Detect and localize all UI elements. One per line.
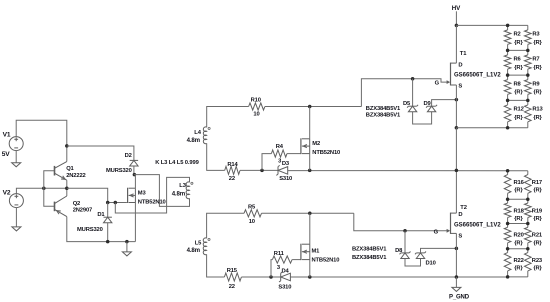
svg-text:5V: 5V [2, 151, 11, 158]
svg-text:P_GND: P_GND [449, 294, 470, 300]
svg-text:V1: V1 [3, 132, 11, 139]
svg-text:V2: V2 [3, 190, 11, 197]
wire L4 top to R10 [207, 107, 249, 128]
wire R4 branch [262, 154, 271, 171]
MOSFET M3 NTB52N10 [128, 188, 166, 206]
wire D8 anode to D10 anode [405, 259, 421, 267]
junction R11 tap [269, 275, 273, 279]
voltage source V1 [2, 132, 24, 159]
svg-text:BZX384B5V1: BZX384B5V1 [366, 112, 401, 118]
svg-text:R6: R6 [514, 57, 522, 63]
svg-text:S: S [458, 83, 462, 89]
wire T1 source down [455, 85, 457, 128]
resistor R14 22 [225, 162, 240, 182]
svg-text:HV: HV [452, 5, 461, 12]
svg-text:NTB52N10: NTB52N10 [312, 150, 340, 156]
svg-text:{R}: {R} [514, 65, 523, 71]
svg-text:K L3 L4 L5 0.999: K L3 L4 L5 0.999 [155, 160, 199, 166]
junction bottom ladder left rail 4 [506, 247, 510, 251]
wire M2 source [309, 154, 311, 171]
wire T2 source down [455, 233, 457, 277]
svg-text:R14: R14 [227, 162, 238, 168]
wire bottom ladder rail 5 [508, 276, 528, 278]
junction top ladder right rail 4 [526, 99, 530, 103]
resistor R3 {R} [525, 25, 543, 50]
svg-text:D4: D4 [282, 269, 290, 275]
resistor R9 {R} [525, 75, 543, 100]
zener D8 BZX384B5V1 [395, 231, 410, 259]
svg-text:R9: R9 [532, 81, 540, 87]
svg-text:G: G [435, 81, 440, 87]
wire D3 to T2 drain rail [288, 170, 508, 172]
svg-text:2N2907: 2N2907 [73, 208, 92, 214]
wire T2 gate run [354, 213, 447, 231]
junction top ladder left rail 4 [506, 99, 510, 103]
resistor R13 {R} [525, 100, 544, 127]
junction bottom ladder left rail 1 [506, 169, 510, 173]
junction top ladder right rail 2 [526, 49, 530, 53]
wire M3 drain node to L3 bottom [134, 175, 190, 207]
wire base rail [44, 171, 55, 207]
wire bottom ladder rail 4 [508, 248, 528, 250]
svg-text:{R}: {R} [514, 115, 523, 121]
wire bottom ladder rail 3 [508, 223, 528, 225]
diode D4 S310 [278, 269, 291, 291]
svg-text:{R}: {R} [514, 240, 523, 246]
svg-text:R20: R20 [514, 233, 524, 239]
svg-text:R18: R18 [514, 209, 525, 215]
svg-text:T2: T2 [460, 205, 466, 211]
resistor R11 3 [272, 251, 292, 271]
resistor R8 {R} [504, 75, 523, 100]
junction T1 source / D9 [455, 98, 459, 102]
junction bottom rail [455, 275, 459, 279]
svg-text:L5: L5 [195, 241, 202, 247]
svg-text:S310: S310 [278, 285, 291, 291]
wire totem output to M3 gate [67, 188, 127, 202]
junction driver ground tap [125, 240, 128, 244]
inductor L3 4.8m [172, 182, 193, 199]
transistor Q2 [55, 188, 93, 216]
svg-text:R5: R5 [248, 204, 256, 210]
junction M1 drain [308, 212, 312, 216]
wire L5 bottom to R15 [207, 254, 225, 277]
resistor R23 {R} [525, 249, 543, 277]
junction bottom ladder left rail 5 [506, 275, 510, 279]
svg-text:R17: R17 [532, 180, 542, 186]
svg-text:R3: R3 [532, 32, 540, 38]
net label HV [452, 5, 461, 12]
wire L4 bottom to R14 [207, 143, 225, 170]
svg-text:4.8m: 4.8m [187, 247, 201, 254]
resistor R15 22 [224, 268, 241, 290]
junction T1 source rail [455, 126, 459, 130]
svg-text:{R}: {R} [533, 65, 542, 71]
diode D1 MURS320 [77, 203, 112, 242]
ground (V2) [12, 208, 21, 231]
svg-text:BZX384B5V1: BZX384B5V1 [366, 106, 401, 112]
mutual coupling statement K [155, 160, 199, 166]
svg-text:R22: R22 [514, 258, 524, 264]
junction top ladder left rail 3 [506, 73, 510, 77]
junction bottom ladder right rail 4 [526, 247, 530, 251]
wire R11 branch [271, 260, 272, 277]
svg-text:10: 10 [249, 219, 255, 225]
ground P_GND [449, 277, 470, 300]
svg-text:T1: T1 [460, 51, 467, 57]
junction bottom ladder left rail 3 [506, 222, 510, 226]
junction D1 anode [106, 240, 110, 244]
wire top ladder rail 5 [508, 127, 528, 129]
wire M1 source [309, 260, 311, 277]
GaN transistor T2 GS66506T_L1V2 [434, 205, 502, 239]
zener D10 BZX384B5V1 [415, 248, 456, 266]
junction Q1 emitter / Q2 collector [65, 187, 69, 191]
resistor R20 {R} [504, 224, 523, 249]
svg-text:R16: R16 [514, 180, 525, 186]
svg-text:M3: M3 [138, 190, 147, 196]
svg-text:R10: R10 [251, 98, 261, 104]
svg-text:L3: L3 [179, 183, 186, 189]
svg-text:{R}: {R} [533, 90, 542, 96]
junction M3 drain / D2 anode [133, 173, 137, 177]
junction bottom ladder right rail 2 [526, 198, 530, 202]
resistor R21 {R} [525, 224, 543, 249]
wire L5 top to R5 [207, 213, 244, 238]
svg-text:R11: R11 [274, 251, 285, 257]
svg-text:22: 22 [229, 284, 235, 290]
svg-text:D: D [458, 63, 462, 69]
inductor L4 4.8m [187, 127, 211, 144]
wire R14 to D3 [240, 169, 278, 171]
resistor R2 {R} [504, 25, 523, 50]
resistor R7 {R} [525, 50, 543, 75]
svg-text:R23: R23 [532, 258, 543, 264]
diode D3 S310 [276, 161, 292, 182]
svg-text:{R}: {R} [514, 90, 523, 96]
svg-text:MURS320: MURS320 [77, 227, 103, 233]
svg-text:D8: D8 [395, 248, 403, 254]
junction M1 source [308, 275, 312, 279]
resistor R4 3 [271, 144, 287, 165]
MOSFET M2 NTB52N10 [301, 138, 340, 156]
svg-text:D5: D5 [403, 101, 411, 107]
junction top ladder left rail 1 [506, 24, 510, 28]
svg-text:R15: R15 [227, 268, 238, 274]
wire V2 to emitter node [16, 188, 66, 193]
svg-text:2N2222: 2N2222 [66, 173, 85, 179]
wire D5 anode to D9 anode [413, 112, 432, 124]
svg-text:GS66506T_L1V2: GS66506T_L1V2 [454, 72, 501, 78]
svg-text:{R}: {R} [533, 115, 542, 121]
svg-text:GS66506T_L1V2: GS66506T_L1V2 [454, 222, 501, 228]
junction bottom ladder right rail 3 [526, 222, 530, 226]
junction D5 tap [411, 77, 415, 81]
svg-text:R13: R13 [532, 107, 543, 113]
svg-text:R19: R19 [532, 209, 543, 215]
svg-text:D10: D10 [426, 260, 436, 266]
svg-text:{R}: {R} [533, 216, 542, 222]
svg-text:S: S [458, 234, 462, 240]
junction M2 drain [308, 105, 312, 109]
junction L3 return tap [114, 201, 118, 205]
wire ladder mid exit [456, 127, 507, 129]
resistor R12 {R} [504, 100, 523, 127]
MOSFET M1 NTB52N10 [301, 244, 339, 264]
wire top ladder rail 2 [508, 49, 528, 51]
svg-text:{R}: {R} [514, 40, 523, 46]
wire gate riser to T1 gate [361, 79, 447, 107]
junction R4 tap [260, 169, 264, 173]
svg-text:R21: R21 [532, 233, 543, 239]
transistor Q1 [55, 162, 86, 189]
svg-text:{R}: {R} [514, 188, 523, 194]
resistor R16 {R} [504, 171, 524, 200]
wire T1-T2 column [455, 128, 457, 213]
wire HV to T1 drain [455, 11, 457, 25]
wire top ladder rail 1 [508, 24, 528, 26]
resistor R22 {R} [504, 249, 523, 277]
wire Q1 collector node to D2 [67, 146, 134, 160]
svg-text:D9: D9 [424, 101, 432, 107]
junction top ladder left rail 2 [506, 49, 510, 53]
svg-text:4.8m: 4.8m [187, 137, 201, 144]
zener D9 BZX384B5V1 [424, 100, 457, 112]
wire M1 drain [309, 213, 311, 244]
wire R10 to gate riser [265, 106, 362, 108]
wire R15 to D4 [241, 276, 280, 278]
wire L3 top to gate node [115, 177, 189, 213]
zener value labels (bottom pair) [352, 247, 387, 262]
svg-text:D1: D1 [97, 212, 105, 218]
junction T2 source / D10 [455, 247, 459, 251]
junction bottom ladder left rail 2 [506, 198, 510, 202]
zener D5 BZX384B5V1 [403, 79, 418, 112]
svg-text:{R}: {R} [533, 40, 542, 46]
svg-text:Q1: Q1 [66, 166, 74, 172]
svg-text:{R}: {R} [514, 266, 523, 272]
junction D8 tap [403, 229, 407, 233]
svg-text:R12: R12 [514, 107, 524, 113]
wire M3 drain lead [134, 175, 136, 188]
junction top ladder left rail 5 [506, 126, 510, 130]
svg-text:M2: M2 [312, 141, 320, 147]
svg-text:R7: R7 [532, 57, 539, 63]
zener value labels (top pair) [366, 106, 401, 118]
wire top rail to ladder [456, 24, 507, 26]
ground (driver) [122, 242, 131, 256]
resistor R5 10 [244, 204, 262, 225]
junction top ladder right rail 3 [526, 73, 530, 77]
junction D1 cathode [106, 201, 110, 205]
svg-text:D3: D3 [282, 161, 290, 167]
wire top ladder rail 4 [508, 99, 528, 101]
svg-text:M1: M1 [312, 248, 321, 254]
GaN transistor T1 GS66506T_L1V2 [435, 25, 502, 89]
svg-text:{R}: {R} [533, 240, 542, 246]
svg-text:22: 22 [229, 176, 235, 182]
wire M2 drain [309, 107, 311, 139]
junction T2 drain rail [455, 169, 459, 173]
junction base rail [42, 187, 46, 191]
resistor R10 10 [249, 98, 265, 118]
svg-text:BZX384B5V1: BZX384B5V1 [352, 255, 387, 261]
svg-text:D2: D2 [125, 153, 132, 159]
wire bottom ladder rail 2 [508, 198, 528, 200]
svg-text:L4: L4 [194, 130, 201, 136]
resistor R17 {R} [525, 171, 543, 200]
resistor R6 {R} [504, 50, 523, 75]
svg-text:3: 3 [277, 265, 281, 271]
junction M2 source [308, 169, 312, 173]
wire R11 to M1 gate [292, 259, 301, 261]
wire top ladder rail 3 [508, 74, 528, 76]
svg-text:S310: S310 [279, 176, 292, 182]
ground (V1) [12, 151, 21, 167]
svg-text:{R}: {R} [533, 188, 542, 194]
svg-text:NTB52N10: NTB52N10 [312, 258, 340, 264]
svg-text:{R}: {R} [533, 266, 542, 272]
wire R5 to T2 gate corner [262, 212, 354, 214]
svg-text:10: 10 [253, 111, 259, 117]
resistor R18 {R} [504, 199, 524, 223]
svg-text:Q2: Q2 [73, 201, 80, 207]
svg-text:R2: R2 [514, 32, 521, 38]
wire V1 to Q1 collector [16, 120, 67, 161]
inductor L5 4.8m [187, 238, 210, 255]
wire bottom ladder rail 1 [508, 170, 528, 172]
junction HV rail [455, 24, 459, 28]
wire Q2 emitter to ground rail [67, 217, 136, 242]
wire R4 to M2 gate [287, 153, 301, 155]
wire M3 source to ground rail [134, 203, 136, 242]
svg-text:{R}: {R} [514, 216, 523, 222]
diode D2 MURS320 [106, 153, 138, 174]
svg-text:G: G [434, 230, 439, 236]
junction Q1 collector / D2 [65, 144, 69, 148]
svg-text:R4: R4 [276, 144, 284, 150]
wire D4 to bottom rail [290, 276, 507, 278]
svg-text:R8: R8 [514, 81, 522, 87]
svg-text:MURS320: MURS320 [106, 168, 132, 174]
svg-text:BZX384B5V1: BZX384B5V1 [352, 247, 387, 253]
svg-text:4.8m: 4.8m [172, 191, 186, 198]
svg-text:NTB52N10: NTB52N10 [138, 199, 166, 205]
voltage source V2 [3, 190, 24, 208]
resistor R19 {R} [525, 199, 543, 223]
svg-text:D: D [458, 212, 462, 218]
